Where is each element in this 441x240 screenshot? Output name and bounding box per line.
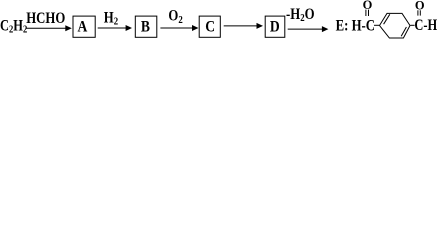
svg-text:D: D: [270, 19, 280, 36]
svg-text:A: A: [77, 19, 87, 36]
svg-text:O2: O2: [168, 7, 182, 26]
svg-text:O: O: [363, 0, 373, 12]
svg-text:-H2O: -H2O: [286, 6, 315, 25]
svg-text:B: B: [141, 19, 150, 36]
svg-text:C2H2: C2H2: [0, 17, 27, 36]
svg-text:C: C: [205, 19, 215, 36]
svg-text:HCHO: HCHO: [26, 10, 65, 28]
svg-text:E: H-C: E: H-C: [336, 17, 375, 35]
svg-text:H2: H2: [104, 9, 118, 28]
svg-text:C-H: C-H: [414, 17, 437, 35]
